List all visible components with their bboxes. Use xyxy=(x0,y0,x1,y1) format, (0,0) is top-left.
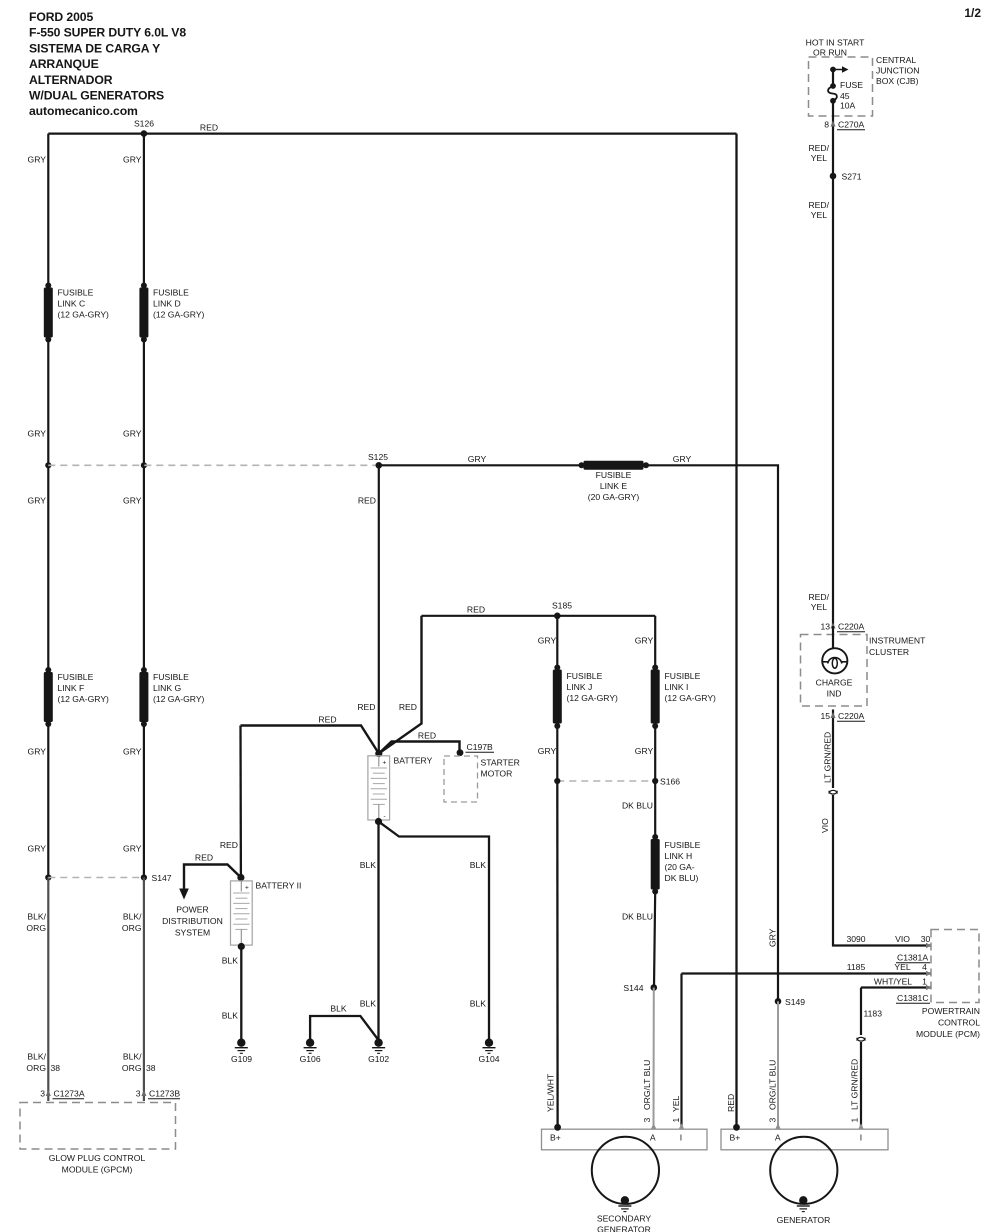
wire: link F to S147 xyxy=(47,724,49,878)
label CENTRAL JUNCTION BOX (CJB) xyxy=(876,55,919,86)
svg-text:RED: RED xyxy=(358,496,376,506)
label GLOW PLUG CONTROL MODULE (GPCM) xyxy=(49,1153,146,1175)
svg-text:ORG: ORG xyxy=(26,1063,46,1073)
svg-text:13: 13 xyxy=(820,622,830,632)
label INSTRUMENT CLUSTER xyxy=(869,636,926,658)
svg-text:RED: RED xyxy=(399,702,417,712)
svg-text:S166: S166 xyxy=(660,777,680,787)
wire: break to generator I terminal xyxy=(860,1042,862,1127)
svg-text:SYSTEM: SYSTEM xyxy=(175,928,210,938)
svg-text:C220A: C220A xyxy=(838,711,865,721)
svg-text:FUSIBLE: FUSIBLE xyxy=(665,840,701,850)
wire BLK: battery negative branch to ground G104 xyxy=(379,822,490,1041)
svg-text:(12 GA-GRY): (12 GA-GRY) xyxy=(567,693,619,703)
svg-text:LINK I: LINK I xyxy=(665,682,689,692)
wire BLK/ORG: column A to GPCM xyxy=(47,878,49,1102)
svg-text:1: 1 xyxy=(671,1118,681,1123)
dashed splice tie S125 xyxy=(48,464,379,466)
terminal tick I secondary xyxy=(679,1123,684,1129)
label BLK/ORG xyxy=(26,912,46,934)
svg-text:30: 30 xyxy=(921,934,931,944)
svg-text:ORG: ORG xyxy=(122,1063,142,1073)
connector C220A pin 13 xyxy=(820,622,865,632)
svg-text:DISTRIBUTION: DISTRIBUTION xyxy=(162,916,223,926)
wire RED: battery bus horizontal to battery positive xyxy=(241,726,379,754)
wire: break down, corner to PCM pin 30 xyxy=(833,795,931,946)
title block xyxy=(29,10,186,118)
label RED/YEL xyxy=(808,200,829,220)
svg-text:RED/: RED/ xyxy=(808,200,829,210)
fusible link I xyxy=(651,665,660,730)
svg-text:BLK/: BLK/ xyxy=(123,1052,142,1062)
central junction box label HOT IN START OR RUN xyxy=(806,38,865,58)
svg-text:GRY: GRY xyxy=(538,636,557,646)
svg-text:RED/: RED/ xyxy=(808,143,829,153)
svg-text:LINK J: LINK J xyxy=(567,682,593,692)
svg-text:GRY: GRY xyxy=(123,496,142,506)
svg-text:INSTRUMENT: INSTRUMENT xyxy=(869,636,926,646)
label SECONDARY GENERATOR xyxy=(597,1214,652,1232)
svg-text:(12 GA-GRY): (12 GA-GRY) xyxy=(153,694,205,704)
svg-text:FUSIBLE: FUSIBLE xyxy=(665,671,701,681)
svg-text:ORG: ORG xyxy=(26,923,46,933)
svg-text:3: 3 xyxy=(40,1089,45,1099)
svg-text:LINK F: LINK F xyxy=(58,683,85,693)
splice S125 xyxy=(368,452,388,469)
wire RED: battery positive to starter motor C197B xyxy=(379,742,460,754)
powertrain control module (PCM) dashed box xyxy=(931,930,979,1003)
wire: C220A 13 into cluster xyxy=(832,626,834,649)
wire RED: tap to power distribution system xyxy=(184,865,241,889)
svg-text:POWERTRAIN: POWERTRAIN xyxy=(922,1006,980,1016)
labels 3090 VIO 30 xyxy=(846,934,931,948)
svg-text:GRY: GRY xyxy=(123,747,142,757)
generator terminal box xyxy=(721,1129,888,1150)
svg-text:(12 GA-GRY): (12 GA-GRY) xyxy=(58,694,110,704)
svg-text:LINK G: LINK G xyxy=(153,683,181,693)
svg-text:FORD 2005: FORD 2005 xyxy=(29,10,93,24)
svg-text:W/DUAL GENERATORS: W/DUAL GENERATORS xyxy=(29,89,164,103)
svg-text:GRY: GRY xyxy=(673,454,692,464)
svg-text:WHT/YEL: WHT/YEL xyxy=(874,977,912,987)
svg-text:ORG: ORG xyxy=(122,923,142,933)
svg-text:S126: S126 xyxy=(134,119,154,129)
svg-text:(20 GA-GRY): (20 GA-GRY) xyxy=(588,492,640,502)
connector C270A pin 8 xyxy=(824,120,865,130)
wire RED: S125 down to battery positive xyxy=(378,465,380,753)
wire GRY: link E to corner, down to S149 xyxy=(646,465,778,1001)
svg-text:G106: G106 xyxy=(300,1054,321,1064)
svg-text:GRY: GRY xyxy=(635,746,654,756)
wire RED: S185 horizontal xyxy=(422,615,656,617)
label FUSIBLE LINK F (12 GA-GRY) xyxy=(58,672,110,704)
svg-text:C1381A: C1381A xyxy=(897,953,928,963)
ground G104 xyxy=(478,1039,499,1065)
svg-text:ALTERNADOR: ALTERNADOR xyxy=(29,73,113,87)
svg-text:3: 3 xyxy=(642,1118,652,1123)
node: CJB bus tap with arrow xyxy=(830,66,848,72)
svg-text:C1381C: C1381C xyxy=(897,993,929,1003)
ground G109 xyxy=(231,1039,252,1065)
svg-text:15: 15 xyxy=(820,711,830,721)
svg-text:FUSE: FUSE xyxy=(840,80,863,90)
connector C1273A pin 3 xyxy=(40,1089,85,1099)
wire: link G to S147 xyxy=(143,724,145,878)
label RED/YEL lower xyxy=(808,592,829,612)
svg-text:GLOW PLUG CONTROL: GLOW PLUG CONTROL xyxy=(49,1153,146,1163)
svg-text:MODULE (GPCM): MODULE (GPCM) xyxy=(62,1165,133,1175)
connector C1273B pin 3 xyxy=(136,1089,181,1099)
svg-text:ARRANQUE: ARRANQUE xyxy=(29,57,99,71)
svg-text:FUSIBLE: FUSIBLE xyxy=(153,288,189,298)
svg-text:S149: S149 xyxy=(785,997,805,1007)
starter motor dashed box xyxy=(444,756,478,802)
svg-text:GRY: GRY xyxy=(28,496,47,506)
wire: column B upper xyxy=(143,134,145,285)
fusible link G xyxy=(139,667,148,727)
svg-text:S144: S144 xyxy=(623,983,643,993)
svg-text:G102: G102 xyxy=(368,1054,389,1064)
svg-text:A: A xyxy=(650,1133,656,1143)
svg-text:ORG/LT BLU: ORG/LT BLU xyxy=(642,1060,652,1110)
wire BLK: battery negative to ground G102 xyxy=(377,822,379,1041)
svg-text:S147: S147 xyxy=(152,873,172,883)
svg-text:S271: S271 xyxy=(842,172,862,182)
svg-text:1185: 1185 xyxy=(847,962,866,972)
svg-text:1: 1 xyxy=(850,1118,860,1123)
svg-text:RED/: RED/ xyxy=(808,592,829,602)
wire BLK/ORG: column B to GPCM xyxy=(143,878,145,1102)
battery BATTERY xyxy=(368,756,390,820)
label FUSIBLE LINK I (12 GA-GRY) xyxy=(665,671,717,703)
svg-text:+: + xyxy=(245,885,249,892)
label FUSIBLE LINK E (20 GA-GRY) xyxy=(588,470,640,502)
svg-text:G109: G109 xyxy=(231,1054,252,1064)
wire: link C to splice row xyxy=(47,340,49,466)
svg-text:3: 3 xyxy=(768,1118,778,1123)
wire: column A mid xyxy=(47,465,49,670)
svg-text:GRY: GRY xyxy=(28,429,47,439)
ground G106 xyxy=(300,1039,321,1065)
svg-text:C1273B: C1273B xyxy=(149,1089,180,1099)
svg-text:38: 38 xyxy=(51,1063,61,1073)
svg-text:LINK E: LINK E xyxy=(600,481,627,491)
wire: YEL 1185 to PCM pin 4 xyxy=(682,972,932,974)
svg-text:BLK: BLK xyxy=(360,999,377,1009)
label POWER DISTRIBUTION SYSTEM xyxy=(162,905,223,938)
svg-text:YEL: YEL xyxy=(671,1096,681,1112)
svg-text:4: 4 xyxy=(922,962,927,972)
svg-text:LINK H: LINK H xyxy=(665,851,693,861)
wire GRY: S125 to fusible link E xyxy=(379,464,581,466)
svg-text:GRY: GRY xyxy=(28,844,47,854)
wire: left column A upper xyxy=(47,134,49,285)
central junction box (CJB) dashed box xyxy=(809,57,873,116)
node: battery negative xyxy=(375,818,382,825)
wire DK BLU: link H to S144 xyxy=(654,892,655,988)
glow plug control module (GPCM) dashed box xyxy=(20,1103,176,1150)
svg-text:GRY: GRY xyxy=(123,429,142,439)
wire: S271 down to instrument cluster xyxy=(832,176,834,626)
svg-text:FUSIBLE: FUSIBLE xyxy=(567,671,603,681)
svg-text:JUNCTION: JUNCTION xyxy=(876,66,919,76)
connector C1381A xyxy=(896,953,930,963)
svg-text:YEL: YEL xyxy=(811,602,827,612)
svg-text:RED: RED xyxy=(467,605,485,615)
splice S126 xyxy=(134,119,154,137)
svg-text:RED: RED xyxy=(200,123,218,133)
label FUSIBLE LINK H (20 GA- DK BLU) xyxy=(665,840,701,883)
terminal tick A secondary xyxy=(651,1123,656,1129)
wire: CJB internal feed xyxy=(832,70,834,85)
svg-text:automecanico.com: automecanico.com xyxy=(29,104,138,118)
node: secondary generator B+ terminal xyxy=(554,1124,561,1131)
dashed splice tie S166 xyxy=(557,780,655,782)
svg-text:FUSIBLE: FUSIBLE xyxy=(58,288,94,298)
svg-text:BLK: BLK xyxy=(222,956,239,966)
svg-text:B+: B+ xyxy=(730,1133,741,1143)
node: battery positive xyxy=(375,750,382,757)
wire ORG/LT BLU: S149 to generator A xyxy=(777,1001,779,1127)
svg-text:LT GRN/RED: LT GRN/RED xyxy=(823,732,833,783)
svg-text:SECONDARY: SECONDARY xyxy=(597,1214,652,1224)
svg-text:BATTERY: BATTERY xyxy=(394,756,433,766)
dashed splice tie S147 xyxy=(48,877,144,879)
svg-text:(12 GA-GRY): (12 GA-GRY) xyxy=(58,310,110,320)
wire GRY: link J to S166 xyxy=(556,726,558,781)
secondary generator terminal box xyxy=(542,1129,708,1150)
wire GRY: S185 down to fusible link J xyxy=(556,616,558,668)
ground G102 xyxy=(368,1039,389,1065)
svg-text:CLUSTER: CLUSTER xyxy=(869,647,909,657)
svg-text:CENTRAL: CENTRAL xyxy=(876,55,916,65)
secondary generator body xyxy=(592,1137,659,1204)
pin arrow PCM 1 xyxy=(926,985,931,990)
svg-text:RED: RED xyxy=(220,840,238,850)
svg-text:BLK/: BLK/ xyxy=(27,1052,46,1062)
svg-text:3: 3 xyxy=(136,1089,141,1099)
label STARTER MOTOR xyxy=(481,758,520,779)
svg-text:GRY: GRY xyxy=(123,155,142,165)
svg-text:MOTOR: MOTOR xyxy=(481,769,513,779)
svg-text:BLK: BLK xyxy=(470,999,487,1009)
svg-text:A: A xyxy=(775,1133,781,1143)
svg-text:SISTEMA DE CARGA Y: SISTEMA DE CARGA Y xyxy=(29,41,160,55)
svg-text:BLK/: BLK/ xyxy=(123,912,142,922)
svg-text:IND: IND xyxy=(827,689,842,699)
svg-text:GRY: GRY xyxy=(468,454,487,464)
terminal tick I generator xyxy=(858,1123,863,1129)
svg-text:STARTER: STARTER xyxy=(481,758,520,768)
wire: main RED feed to generator B+ xyxy=(735,134,737,1125)
labels 1185 YEL 4 xyxy=(847,962,927,972)
label CHARGE IND xyxy=(816,678,853,699)
svg-text:GRY: GRY xyxy=(635,636,654,646)
wire: cluster down to connector break xyxy=(832,718,834,788)
svg-text:CHARGE: CHARGE xyxy=(816,678,853,688)
charge indicator lamp xyxy=(822,648,847,673)
wire YEL: secondary generator I up to PCM row xyxy=(680,974,682,1128)
generator body xyxy=(770,1137,837,1204)
splice S166 xyxy=(554,777,680,787)
svg-text:FUSIBLE: FUSIBLE xyxy=(58,672,94,682)
svg-text:C1273A: C1273A xyxy=(54,1089,85,1099)
wire DK BLU: S166 to fusible link H xyxy=(654,781,656,837)
svg-text:RED: RED xyxy=(357,702,375,712)
wire: fuse to connector C270A xyxy=(832,101,834,176)
wire GRY: S185 corner down to fusible link I xyxy=(654,616,656,668)
svg-text:POWER: POWER xyxy=(176,905,208,915)
label FUSIBLE LINK J (12 GA-GRY) xyxy=(567,671,619,703)
svg-text:+: + xyxy=(383,760,387,767)
splice S147 xyxy=(141,873,172,883)
svg-text:(12 GA-GRY): (12 GA-GRY) xyxy=(665,693,717,703)
svg-text:DK BLU: DK BLU xyxy=(622,801,653,811)
svg-text:8: 8 xyxy=(824,120,829,130)
fusible link F xyxy=(44,667,53,727)
svg-text:S185: S185 xyxy=(552,601,572,611)
pin arrow PCM 4 xyxy=(926,971,931,976)
svg-text:F-550 SUPER DUTY 6.0L V8: F-550 SUPER DUTY 6.0L V8 xyxy=(29,26,186,40)
svg-text:G104: G104 xyxy=(478,1054,499,1064)
label POWERTRAIN CONTROL MODULE (PCM) xyxy=(916,1006,980,1039)
node: column B splice on S125 dashed tie xyxy=(141,462,147,468)
wire YEL/WHT: S166 down to secondary generator B+ xyxy=(556,781,559,1125)
svg-text:BLK: BLK xyxy=(222,1011,239,1021)
label BLK/ORG 38 xyxy=(26,1052,60,1074)
node: battery II positive xyxy=(237,874,244,881)
svg-text:B+: B+ xyxy=(550,1133,561,1143)
svg-text:FUSIBLE: FUSIBLE xyxy=(153,672,189,682)
connector C197B xyxy=(457,742,494,756)
wire: column B mid xyxy=(143,465,145,670)
svg-text:(12 GA-GRY): (12 GA-GRY) xyxy=(153,310,205,320)
label FUSIBLE LINK D (12 GA-GRY) xyxy=(153,288,205,320)
svg-text:YEL: YEL xyxy=(811,153,827,163)
svg-text:BLK: BLK xyxy=(330,1004,347,1014)
instrument cluster dashed box xyxy=(801,635,868,707)
fusible link H xyxy=(651,834,660,895)
label BLK/ORG xyxy=(122,912,142,934)
svg-text:3090: 3090 xyxy=(846,934,865,944)
svg-text:LINK D: LINK D xyxy=(153,299,181,309)
labels WHT/YEL 1 xyxy=(874,977,927,987)
svg-text:MODULE (PCM): MODULE (PCM) xyxy=(916,1029,980,1039)
wire: top RED bus from left column to right xyxy=(48,132,736,134)
wire RED: battery bus down to battery II xyxy=(239,726,242,878)
svg-text:HOT IN START: HOT IN START xyxy=(806,38,865,48)
svg-text:BLK/: BLK/ xyxy=(27,912,46,922)
svg-text:RED: RED xyxy=(318,715,336,725)
terminal tick A generator xyxy=(775,1123,780,1129)
svg-text:LINK C: LINK C xyxy=(58,299,86,309)
svg-text:S125: S125 xyxy=(368,452,388,462)
svg-text:GRY: GRY xyxy=(28,747,47,757)
wire GRY: link I to S166 xyxy=(654,726,656,781)
svg-text:1/2: 1/2 xyxy=(964,6,981,20)
svg-text:C270A: C270A xyxy=(838,120,865,130)
svg-text:GENERATOR: GENERATOR xyxy=(777,1215,831,1225)
battery BATTERY II xyxy=(231,881,253,945)
node: generator B+ terminal xyxy=(733,1124,740,1131)
svg-text:38: 38 xyxy=(146,1063,156,1073)
wire: WHT/YEL to PCM pin 1 xyxy=(861,986,931,988)
wire 1183: PCM pin 1 down to generator I xyxy=(860,988,862,1036)
label FUSE 45 10A xyxy=(840,80,863,111)
svg-text:BOX (CJB): BOX (CJB) xyxy=(876,76,919,86)
svg-text:RED: RED xyxy=(195,853,213,863)
splice S271 xyxy=(830,172,862,182)
svg-text:LT GRN/RED: LT GRN/RED xyxy=(850,1059,860,1110)
label FUSIBLE LINK G (12 GA-GRY) xyxy=(153,672,205,704)
label FUSIBLE LINK C (12 GA-GRY) xyxy=(58,288,110,320)
in-line connector break on 1183 xyxy=(857,1037,865,1041)
svg-text:ORG/LT BLU: ORG/LT BLU xyxy=(768,1060,778,1110)
wire BLK: battery II to ground G109 xyxy=(240,947,242,1041)
label RED/YEL xyxy=(808,143,829,163)
node: battery II negative xyxy=(238,943,245,950)
svg-text:BATTERY II: BATTERY II xyxy=(256,881,302,891)
svg-text:VIO: VIO xyxy=(895,934,910,944)
connector C1381C xyxy=(896,993,930,1003)
svg-text:GRY: GRY xyxy=(123,844,142,854)
fusible link E xyxy=(579,461,650,470)
node: column A on S147 dashed tie xyxy=(45,874,51,880)
splice S185 xyxy=(552,601,572,620)
svg-text:YEL: YEL xyxy=(811,210,827,220)
svg-text:DK BLU: DK BLU xyxy=(622,912,653,922)
wire: link D down xyxy=(143,340,145,466)
svg-text:1183: 1183 xyxy=(864,1009,883,1019)
svg-text:BLK: BLK xyxy=(360,860,377,870)
svg-text:-: - xyxy=(384,813,386,820)
svg-text:FUSIBLE: FUSIBLE xyxy=(596,470,632,480)
svg-text:GENERATOR: GENERATOR xyxy=(597,1225,651,1232)
wire: cluster exit to C220A 15 xyxy=(832,710,834,719)
ground at generator xyxy=(797,1196,810,1211)
svg-text:RED: RED xyxy=(726,1094,736,1112)
fusible link C xyxy=(44,283,53,343)
svg-text:CONTROL: CONTROL xyxy=(938,1018,980,1028)
splice S144 xyxy=(623,983,657,993)
in-line connector break xyxy=(829,790,837,794)
svg-text:RED: RED xyxy=(418,731,436,741)
svg-text:OR RUN: OR RUN xyxy=(813,48,847,58)
fusible link J xyxy=(553,665,562,730)
node: column A splice on S125 dashed tie xyxy=(45,462,51,468)
svg-text:C220A: C220A xyxy=(838,622,865,632)
svg-text:YEL: YEL xyxy=(894,962,910,972)
svg-text:I: I xyxy=(860,1133,862,1143)
svg-text:GRY: GRY xyxy=(768,928,778,947)
fusible link D xyxy=(139,283,148,343)
label BLK/ORG 38 xyxy=(122,1052,156,1074)
splice S149 xyxy=(775,997,806,1007)
arrow to power distribution system xyxy=(179,889,189,900)
connector C220A pin 15 xyxy=(820,711,865,721)
svg-text:GRY: GRY xyxy=(538,746,557,756)
fuse 45 10A symbol xyxy=(828,83,837,104)
svg-text:BLK: BLK xyxy=(470,860,487,870)
svg-text:DK BLU): DK BLU) xyxy=(665,873,699,883)
ground at secondary generator xyxy=(618,1196,631,1211)
wire BLK: ground G106 tie to G102 xyxy=(310,1016,378,1040)
svg-text:45: 45 xyxy=(840,91,850,101)
wire RED: S185 corner down to battery positive xyxy=(379,616,422,754)
svg-text:10A: 10A xyxy=(840,101,856,111)
svg-text:I: I xyxy=(680,1133,682,1143)
svg-text:YEL/WHT: YEL/WHT xyxy=(546,1073,556,1112)
